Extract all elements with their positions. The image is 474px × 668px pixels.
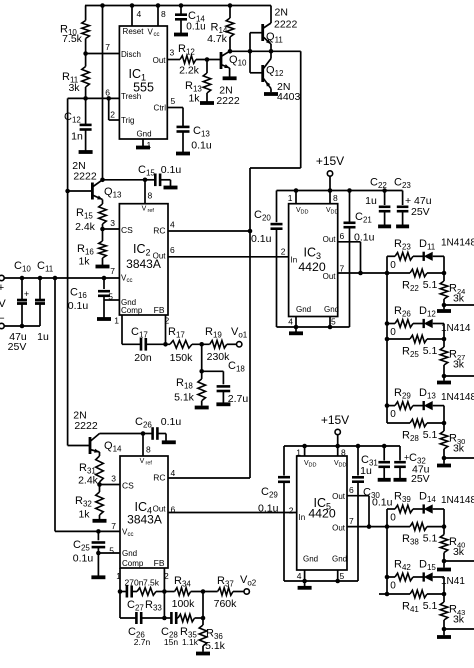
svg-text:1N41: 1N41: [441, 576, 465, 587]
svg-text:DD: DD: [339, 463, 347, 469]
svg-text:1N414: 1N414: [441, 323, 471, 334]
svg-text:Gnd: Gnd: [122, 549, 137, 558]
svg-text:0.1u: 0.1u: [191, 140, 212, 152]
svg-text:cc: cc: [127, 278, 133, 284]
svg-text:+: +: [0, 282, 4, 294]
svg-text:4: 4: [171, 468, 176, 478]
svg-text:0.1u: 0.1u: [251, 233, 272, 245]
svg-text:Gnd: Gnd: [296, 305, 311, 314]
svg-text:0.1u: 0.1u: [161, 416, 182, 428]
svg-text:1N4148: 1N4148: [441, 238, 474, 249]
svg-text:1k: 1k: [78, 256, 90, 268]
svg-text:0: 0: [390, 327, 396, 338]
svg-text:Gnd: Gnd: [332, 555, 347, 564]
svg-text:Out: Out: [332, 492, 346, 501]
svg-text:CS: CS: [121, 225, 133, 235]
svg-text:5: 5: [340, 571, 345, 581]
svg-text:5: 5: [109, 546, 114, 556]
svg-text:4: 4: [288, 317, 293, 327]
svg-text:4.7k: 4.7k: [207, 33, 228, 45]
svg-text:2: 2: [110, 110, 115, 120]
svg-text:cc: cc: [128, 532, 134, 538]
svg-text:Gnd: Gnd: [303, 555, 318, 564]
svg-text:1u: 1u: [365, 195, 377, 207]
svg-text:+: +: [24, 289, 29, 299]
svg-text:DD: DD: [309, 463, 317, 469]
svg-text:5.1: 5.1: [423, 345, 438, 357]
svg-text:Out: Out: [153, 505, 167, 514]
svg-text:1n: 1n: [71, 131, 83, 143]
svg-text:7.5k: 7.5k: [62, 33, 83, 45]
svg-text:Tresh: Tresh: [121, 92, 141, 101]
svg-text:1N4148: 1N4148: [441, 495, 474, 506]
svg-text:100k: 100k: [172, 598, 196, 610]
svg-text:8: 8: [146, 445, 151, 455]
svg-text:1.1k: 1.1k: [182, 637, 199, 647]
svg-text:2222: 2222: [274, 19, 298, 31]
svg-text:3843A: 3843A: [127, 513, 162, 527]
svg-text:1k: 1k: [78, 509, 90, 521]
svg-text:0.1u: 0.1u: [372, 497, 393, 509]
svg-text:FB: FB: [154, 305, 165, 315]
svg-text:25V: 25V: [8, 341, 27, 353]
svg-text:6: 6: [340, 231, 345, 241]
svg-text:1k: 1k: [188, 93, 200, 105]
svg-text:3: 3: [170, 48, 175, 58]
svg-text:2: 2: [281, 247, 286, 257]
svg-text:0.1u: 0.1u: [73, 553, 94, 565]
svg-text:4420: 4420: [308, 507, 336, 521]
svg-text:2222: 2222: [216, 95, 240, 107]
svg-text:3: 3: [111, 474, 116, 484]
svg-text:1: 1: [147, 140, 152, 150]
svg-text:0: 0: [390, 513, 396, 524]
svg-text:3k: 3k: [453, 614, 465, 626]
svg-text:6: 6: [170, 245, 175, 255]
svg-text:270n: 270n: [125, 578, 144, 588]
svg-text:7: 7: [105, 42, 110, 52]
svg-text:7.5k: 7.5k: [143, 578, 160, 588]
svg-text:+15V: +15V: [316, 154, 344, 168]
svg-text:8: 8: [333, 193, 338, 203]
svg-text:2.4k: 2.4k: [78, 475, 99, 487]
svg-text:3k: 3k: [453, 293, 465, 305]
svg-text:Out: Out: [332, 524, 346, 533]
svg-text:25V: 25V: [411, 206, 430, 218]
svg-text:8: 8: [161, 9, 166, 19]
svg-text:cc: cc: [154, 32, 160, 38]
svg-text:7: 7: [340, 264, 345, 274]
svg-text:+15V: +15V: [321, 413, 349, 427]
svg-text:2: 2: [289, 506, 294, 516]
svg-text:Gnd: Gnd: [136, 130, 151, 139]
svg-text:25V: 25V: [411, 473, 430, 485]
svg-text:2222: 2222: [73, 171, 97, 183]
svg-text:760k: 760k: [214, 598, 238, 610]
svg-text:3k: 3k: [453, 546, 465, 558]
svg-text:In: In: [291, 256, 298, 265]
svg-text:3k: 3k: [453, 443, 465, 455]
svg-text:0.1u: 0.1u: [258, 503, 279, 515]
svg-text:4: 4: [297, 571, 302, 581]
svg-text:0.1u: 0.1u: [161, 164, 182, 176]
svg-text:Out: Out: [323, 272, 337, 281]
svg-text:5: 5: [331, 317, 336, 327]
svg-text:150k: 150k: [170, 352, 194, 364]
svg-text:V: V: [142, 206, 147, 213]
svg-text:5.1k: 5.1k: [205, 640, 226, 652]
svg-text:CS: CS: [122, 481, 134, 491]
svg-text:2N: 2N: [275, 7, 288, 19]
svg-text:In: In: [299, 513, 306, 522]
svg-text:7: 7: [349, 516, 354, 526]
svg-text:1u: 1u: [360, 465, 372, 477]
svg-text:Out: Out: [153, 252, 167, 261]
svg-text:5.1: 5.1: [423, 533, 438, 545]
svg-text:3k: 3k: [68, 82, 80, 94]
svg-text:5.1: 5.1: [423, 600, 438, 612]
svg-text:5: 5: [171, 96, 176, 106]
svg-text:1: 1: [288, 193, 293, 203]
svg-text:15n: 15n: [164, 637, 178, 647]
svg-text:0: 0: [390, 260, 396, 271]
svg-text:2222: 2222: [74, 420, 98, 432]
svg-text:7: 7: [110, 266, 115, 276]
svg-text:ref: ref: [146, 461, 153, 467]
svg-text:0: 0: [390, 409, 396, 420]
svg-text:7: 7: [111, 521, 116, 531]
svg-text:Out: Out: [323, 235, 337, 244]
svg-text:FB: FB: [154, 558, 165, 568]
svg-text:2.2k: 2.2k: [179, 65, 200, 77]
svg-text:1: 1: [114, 316, 119, 326]
svg-text:1u: 1u: [37, 331, 49, 343]
svg-text:Out: Out: [153, 56, 167, 65]
svg-text:4: 4: [170, 220, 175, 230]
svg-text:DD: DD: [331, 210, 339, 216]
svg-text:8: 8: [148, 191, 153, 201]
svg-text:RC: RC: [153, 226, 165, 236]
svg-text:Ctrl: Ctrl: [154, 104, 167, 113]
svg-text:0: 0: [390, 581, 396, 592]
svg-text:Gnd: Gnd: [324, 305, 339, 314]
svg-text:Disch: Disch: [121, 50, 141, 59]
svg-text:RC: RC: [153, 473, 165, 483]
svg-text:Comp: Comp: [121, 306, 143, 315]
svg-text:2.7n: 2.7n: [134, 637, 151, 647]
svg-text:1N4148: 1N4148: [441, 392, 474, 403]
svg-text:V: V: [140, 458, 145, 465]
svg-text:5.1: 5.1: [423, 429, 438, 441]
svg-text:5.1k: 5.1k: [174, 392, 195, 404]
svg-text:Trig: Trig: [121, 116, 134, 125]
svg-text:2.4k: 2.4k: [75, 221, 96, 233]
svg-text:4403: 4403: [277, 91, 301, 103]
svg-text:230k: 230k: [207, 351, 231, 363]
svg-text:0.1u: 0.1u: [68, 300, 89, 312]
svg-text:3: 3: [110, 218, 115, 228]
svg-text:3k: 3k: [453, 359, 465, 371]
svg-text:4: 4: [137, 9, 142, 19]
svg-text:DD: DD: [301, 210, 309, 216]
svg-text:5.1: 5.1: [423, 279, 438, 291]
svg-text:6: 6: [349, 485, 354, 495]
svg-text:2.7u: 2.7u: [228, 393, 249, 405]
svg-text:0.1u: 0.1u: [186, 22, 205, 33]
svg-text:Comp: Comp: [122, 559, 144, 568]
svg-text:20n: 20n: [134, 352, 152, 364]
svg-text:ref: ref: [148, 208, 155, 214]
svg-text:6: 6: [105, 88, 110, 98]
svg-text:Reset: Reset: [123, 27, 145, 36]
svg-text:V: V: [0, 298, 6, 310]
